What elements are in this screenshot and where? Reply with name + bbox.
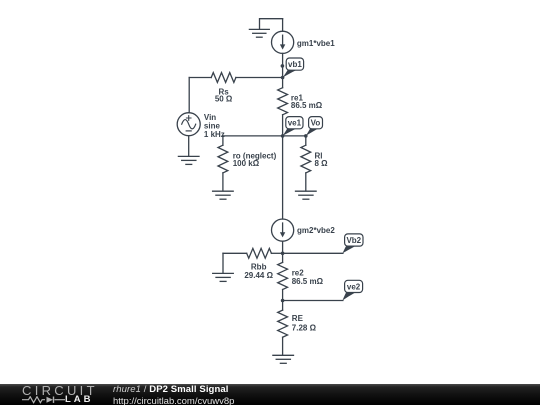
node dot vb1 anchor xyxy=(281,64,285,68)
svg-text:8 Ω: 8 Ω xyxy=(315,159,329,168)
ground G2 under Vin xyxy=(178,156,199,164)
flag Vo xyxy=(306,117,323,136)
flag ve2 xyxy=(342,280,362,300)
junction dot ve1 xyxy=(281,134,285,138)
svg-text:7.28 Ω: 7.28 Ω xyxy=(292,324,317,333)
svg-text:gm1*vbe1: gm1*vbe1 xyxy=(297,39,335,48)
resistor re2 xyxy=(278,253,324,300)
wire Vin to ground xyxy=(188,136,190,157)
wire main rail ve1 to gm2 xyxy=(282,136,284,219)
junction dot Vo xyxy=(304,134,308,138)
resistor ro (neglect) xyxy=(218,136,277,191)
svg-text:Rbb: Rbb xyxy=(251,262,267,271)
resistor Rs xyxy=(189,73,282,104)
svg-text:ve2: ve2 xyxy=(347,282,361,291)
junction J2 dot xyxy=(281,252,285,256)
svg-text:50 Ω: 50 Ω xyxy=(215,95,233,104)
svg-text:Vb2: Vb2 xyxy=(346,236,361,245)
wire Vo down to Rl xyxy=(305,136,307,145)
wire I1 bottom to node xyxy=(282,53,284,77)
junction J1 dot xyxy=(281,76,285,80)
resistor RE xyxy=(278,301,317,355)
wire ve1 horizontal xyxy=(223,135,306,137)
logo waveform + LAB xyxy=(22,396,66,404)
ground G1 top xyxy=(249,19,282,38)
flag ve1 xyxy=(283,117,304,136)
resistor Rl xyxy=(301,145,328,191)
flag Vb2 xyxy=(342,234,363,253)
resistor Rbb xyxy=(223,248,283,280)
logo CIRCUIT xyxy=(22,383,98,398)
ground G3 under ro xyxy=(213,191,234,199)
svg-text:86.5 mΩ: 86.5 mΩ xyxy=(291,101,323,110)
ground G5 left of Rbb xyxy=(213,273,234,281)
svg-text:gm2*vbe2: gm2*vbe2 xyxy=(297,226,335,235)
svg-text:29.44 Ω: 29.44 Ω xyxy=(244,271,273,280)
wire J3 to ve2 flag xyxy=(283,300,343,302)
svg-text:1 kHz: 1 kHz xyxy=(204,130,225,139)
svg-text:ve1: ve1 xyxy=(288,119,302,128)
svg-text:RE: RE xyxy=(292,314,304,323)
wire Rbb left down xyxy=(222,253,224,273)
url line xyxy=(113,396,234,405)
svg-text:100 kΩ: 100 kΩ xyxy=(233,159,260,168)
title line xyxy=(113,384,229,395)
wire top ground to current source xyxy=(282,19,284,32)
wire J2 to Vb2 flag xyxy=(283,252,343,254)
svg-text:86.5 mΩ: 86.5 mΩ xyxy=(292,277,324,286)
labels Vin sine 1 kHz xyxy=(204,113,225,139)
svg-text:Vo: Vo xyxy=(311,119,321,128)
svg-text:vb1: vb1 xyxy=(288,60,302,69)
footer bar xyxy=(0,384,540,405)
ground G6 bottom xyxy=(273,355,294,363)
ground G4 under Rl xyxy=(296,191,317,199)
current source I1 gm1*vbe1 xyxy=(272,31,294,53)
junction J3 dot xyxy=(281,299,285,303)
flag vb1 xyxy=(283,58,304,78)
wire Rs left down to Vin xyxy=(188,78,190,113)
wire I2 bottom to junction xyxy=(282,241,284,253)
resistor re1 xyxy=(278,78,323,136)
current source I2 gm2*vbe2 xyxy=(272,219,294,241)
voltage source V1 Vin xyxy=(177,113,200,136)
